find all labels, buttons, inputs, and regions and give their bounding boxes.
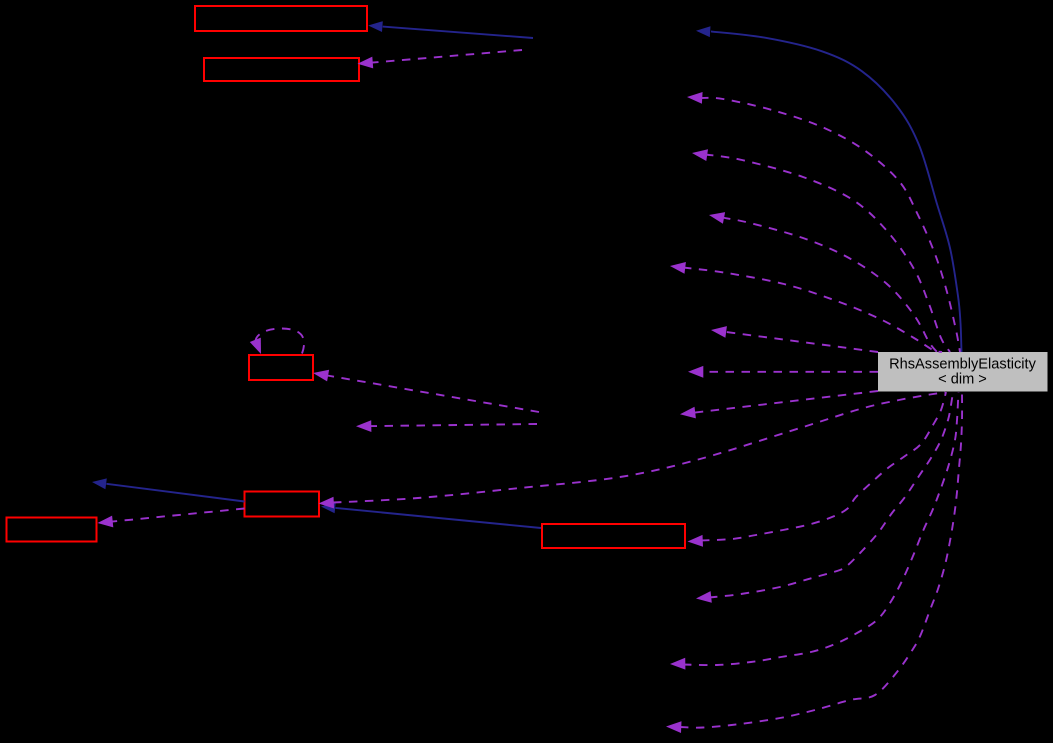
long dashed edge to box4 arrowhead (319, 497, 335, 509)
fan edge U4 arrowhead (670, 262, 686, 274)
long dashed edge central to box4 (333, 393, 945, 503)
dashed edge central to box6 (701, 392, 946, 541)
dashed edge box4 to box5 arrowhead (98, 516, 114, 528)
central node RhsAssemblyElasticity (878, 352, 1048, 392)
svg-text:RhsAssemblyElasticity: RhsAssemblyElasticity (889, 357, 1036, 373)
node box4 (245, 492, 320, 517)
dashed fan edge U1 (700, 98, 960, 352)
fan edge L2 arrowhead (696, 591, 712, 603)
dashed horizontal edge from central (703, 371, 879, 373)
dashed edge to box2 arrowhead (358, 57, 374, 69)
dashed horizontal edge arrowhead (688, 366, 703, 378)
edge to box6 arrowhead (688, 535, 704, 547)
svg-text:< dim >: < dim > (938, 372, 987, 388)
self-loop arrowhead (250, 338, 261, 354)
blue curved edge from central node (711, 31, 962, 352)
dashed edge mid-left (371, 424, 538, 426)
dashed fan edge L2 (709, 392, 953, 598)
dashed edge to box3 arrowhead (313, 370, 329, 382)
fan edge U1 arrowhead (687, 92, 703, 104)
dashed edge from central corner arrowhead (680, 407, 696, 419)
blue edge to box1 arrowhead (368, 21, 383, 32)
node box3 (self loop) (249, 355, 313, 380)
fan edge L4 arrowhead (666, 721, 682, 733)
blue curved edge arrowhead (696, 26, 711, 37)
blue edge from box4 to left (106, 484, 244, 502)
blue edge to box1 (383, 27, 533, 38)
node box1 (top) (195, 6, 367, 31)
dashed fan edge U3 (722, 218, 937, 353)
dashed edge from central corner (694, 391, 878, 413)
blue edge from box4 to left arrowhead (92, 478, 107, 489)
node box6 (542, 524, 685, 548)
dashed fan edge L3 (683, 392, 959, 665)
blue edge box6 to box4 arrowhead (321, 503, 336, 514)
dashed fan edge L4 (680, 392, 962, 728)
dashed fan edge U2 (705, 155, 950, 353)
dashed edge mid-left arrowhead (356, 420, 371, 432)
dashed fan edge U5 (725, 332, 878, 352)
self-loop on box3 (255, 329, 304, 354)
dashed edge to box2 (372, 50, 522, 63)
fan edge U5 arrowhead (711, 326, 727, 338)
fan edge U3 arrowhead (709, 212, 725, 224)
dashed edge to box3 (327, 376, 539, 413)
node box5 (left) (7, 518, 97, 542)
fan edge U2 arrowhead (692, 149, 708, 161)
node box2 (204, 58, 359, 81)
blue edge box6 to box4 (335, 508, 541, 528)
fan edge L3 arrowhead (670, 658, 685, 670)
dashed fan edge U4 (683, 268, 942, 353)
dashed edge box4 to box5 (112, 509, 245, 522)
